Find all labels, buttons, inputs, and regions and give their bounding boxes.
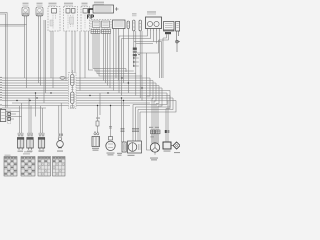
connector P2 <box>27 133 33 150</box>
component labels bottom <box>18 118 181 161</box>
inline connector on harness wire <box>60 76 65 79</box>
battery <box>92 121 100 147</box>
magneto <box>150 134 159 155</box>
pin table T1 <box>4 155 17 177</box>
connector P3 <box>38 133 44 150</box>
label FP <box>88 15 94 19</box>
main harness bundle <box>2 78 170 109</box>
ignition switch <box>146 11 162 31</box>
starter motor <box>106 127 115 151</box>
starter relay small box <box>122 142 126 152</box>
wire pair left edge to lamp FL1 <box>0 19 27 88</box>
junction dots <box>16 57 142 106</box>
wire drops to magneto <box>147 53 169 150</box>
regulator box <box>113 20 126 29</box>
fuse box block <box>89 2 119 14</box>
magneto connector block <box>151 130 160 134</box>
wire labels left edge <box>0 77 2 109</box>
wire cluster drops <box>93 29 142 91</box>
wire drops center bottom <box>98 93 139 142</box>
wire ignition switch drops <box>119 31 162 96</box>
tail lamp bulb <box>57 137 64 148</box>
ignition coil connector <box>165 130 170 133</box>
turn signal relay <box>0 110 6 122</box>
connector P1 <box>17 133 23 150</box>
switch SW3 <box>81 3 90 31</box>
lower harness bundle <box>2 93 176 141</box>
pin table T4 <box>53 157 66 177</box>
diode block <box>7 110 10 124</box>
rectifier unit <box>128 141 142 153</box>
wire lamp FL2 drops <box>39 19 41 86</box>
main fuse F1 <box>127 21 130 29</box>
left harness lines <box>2 93 46 133</box>
instrument cluster <box>91 20 111 34</box>
grommet symbol right <box>176 31 180 52</box>
CDI unit <box>164 22 175 32</box>
turn signal lamp FL1 <box>22 3 29 19</box>
turn signal lamp FL2 <box>36 3 43 19</box>
pin table T2 <box>21 151 35 176</box>
wire pair from left edge top <box>0 13 7 108</box>
fuse chain center <box>69 70 77 109</box>
relay box right <box>176 22 180 32</box>
handlebar switch SW1 <box>48 3 60 31</box>
inline connectors center <box>121 129 140 132</box>
wire SW1 drops <box>51 31 53 88</box>
pin table T3 <box>38 150 51 176</box>
ignition coil <box>163 142 171 149</box>
spark plug <box>171 142 180 149</box>
inline connector right column <box>133 48 141 57</box>
wire SW3 drops <box>80 31 93 91</box>
CDI output connector <box>165 32 171 34</box>
wire CDI drops <box>134 34 169 78</box>
handlebar switch SW2 <box>64 3 78 31</box>
fuse F3 <box>139 20 141 31</box>
wire fuse drops <box>128 29 142 101</box>
wire bulb drops <box>59 103 61 137</box>
wire SW2 drops <box>66 31 75 88</box>
fuse F2 <box>132 13 137 31</box>
wire pair x44 <box>44 20 46 103</box>
